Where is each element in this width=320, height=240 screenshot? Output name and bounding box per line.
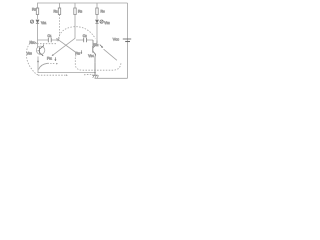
svg-text:R1: R1: [32, 8, 37, 12]
wire emitter ground rail: [38, 72, 95, 74]
ground: [92, 62, 98, 78]
capacitor C1: [38, 38, 58, 43]
svg-text:VB2: VB2: [104, 21, 110, 25]
svg-text:R4: R4: [101, 10, 106, 14]
svg-text:C2: C2: [83, 34, 87, 38]
wire cross-coupling diagonal B with arrowhead: [52, 38, 75, 56]
svg-text:VB1: VB1: [41, 21, 47, 25]
svg-text:F02: F02: [94, 43, 99, 47]
svg-text:R3: R3: [78, 10, 83, 14]
wire Q1 output down with up arrowhead: [37, 57, 39, 73]
wire R4 branch down: [96, 23, 98, 40]
wire right side vertical: [127, 3, 129, 78]
resistor R1: [36, 8, 38, 19]
wire node to dashed ground path: [75, 53, 77, 57]
dashed path middle down around to right: [75, 58, 121, 71]
svg-text:VB4: VB4: [88, 54, 94, 58]
wire R2 branch dashed: [59, 15, 61, 39]
arrow Q2 annotation diagonal: [100, 45, 117, 61]
wire R1 branch down: [37, 23, 39, 48]
dashed tail near ground: [84, 73, 93, 76]
diode VB2: [95, 20, 103, 23]
svg-text:C1: C1: [48, 34, 52, 38]
arrow Fo1 down: [55, 57, 56, 61]
battery VCC: [123, 39, 131, 42]
node junction at ground rail: [94, 72, 96, 74]
resistor R3: [74, 3, 76, 39]
diode VB1: [30, 20, 39, 23]
arrow Fo2 mid down: [81, 50, 82, 54]
svg-text:R2: R2: [54, 10, 59, 14]
wire top supply rail: [38, 3, 128, 9]
resistor R4: [96, 3, 98, 19]
wire dashed run with down arrowhead: [48, 63, 58, 65]
dashed loop left side: [26, 44, 56, 75]
transistor Q2: [93, 40, 97, 62]
resistor R2: [58, 3, 60, 15]
wire Q1 emitter curve to dashed run: [39, 63, 48, 69]
svg-text:VB3: VB3: [27, 52, 33, 56]
wire cross-coupling diagonal A: [56, 38, 76, 52]
wire bottom right return: [95, 77, 128, 79]
capacitor C2: [76, 38, 93, 43]
dashed loop bottom with arrowhead: [38, 74, 68, 76]
transistor Q1: [36, 45, 44, 57]
label N1 with arrow: [30, 40, 37, 44]
dashed arch over middle: [59, 27, 96, 39]
svg-text:F01: F01: [47, 56, 52, 60]
node junction cap C1 right: [57, 39, 59, 41]
svg-text:VCC: VCC: [113, 38, 119, 42]
